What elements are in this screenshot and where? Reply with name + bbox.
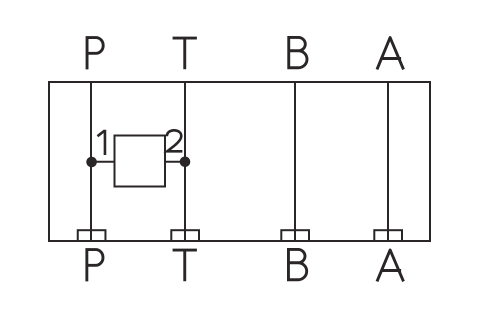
port pad T	[171, 230, 199, 241]
label A top	[377, 38, 404, 70]
port pad P	[78, 230, 106, 241]
pin label 2	[167, 130, 183, 151]
wire port line A	[387, 83, 389, 240]
node 1 junction dot	[86, 157, 97, 168]
label T bottom	[173, 250, 197, 281]
label T top	[173, 38, 197, 69]
label B bottom	[287, 248, 307, 281]
wire port line T	[184, 83, 186, 240]
pin label 1	[98, 130, 105, 155]
component box X1	[115, 136, 166, 187]
label P top	[86, 36, 104, 69]
wire port line B	[294, 83, 296, 240]
label B top	[287, 36, 307, 69]
valve body outline	[49, 82, 430, 241]
label P bottom	[85, 248, 103, 281]
wire box to node2	[165, 161, 184, 163]
port pad B	[281, 230, 309, 241]
node 2 junction dot	[180, 157, 191, 168]
wire node1 to box	[92, 161, 114, 163]
port pad A	[374, 230, 402, 241]
wire port line P	[90, 83, 92, 240]
label A bottom	[377, 250, 404, 281]
